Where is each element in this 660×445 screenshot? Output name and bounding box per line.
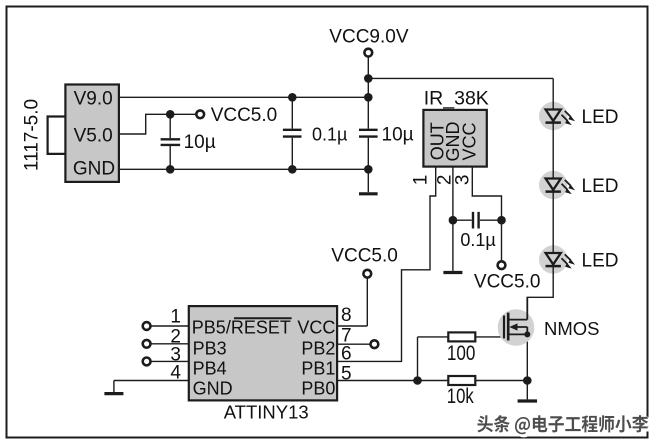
svg-text:5: 5 <box>341 364 352 385</box>
svg-text:VCC9.0V: VCC9.0V <box>329 26 409 47</box>
svg-text:LED: LED <box>582 250 619 271</box>
svg-text:8: 8 <box>341 305 352 326</box>
svg-text:PB0: PB0 <box>301 379 335 399</box>
svg-text:LED: LED <box>582 107 619 128</box>
svg-text:PB2: PB2 <box>301 338 335 358</box>
svg-text:PB3: PB3 <box>193 338 227 358</box>
svg-text:IR_38K: IR_38K <box>424 88 489 110</box>
svg-text:GND: GND <box>193 379 233 399</box>
svg-text:LED: LED <box>582 176 619 197</box>
svg-text:PB4: PB4 <box>193 359 227 379</box>
svg-text:PB5/RESET: PB5/RESET <box>192 318 291 338</box>
svg-text:VCC5.0: VCC5.0 <box>211 105 278 126</box>
svg-text:VCC: VCC <box>459 122 479 160</box>
svg-text:10µ: 10µ <box>382 124 414 145</box>
svg-text:NMOS: NMOS <box>544 318 600 339</box>
svg-text:V9.0: V9.0 <box>74 89 113 110</box>
svg-text:10k: 10k <box>447 385 474 408</box>
svg-text:ATTINY13: ATTINY13 <box>224 402 309 423</box>
svg-text:VCC: VCC <box>297 318 335 338</box>
svg-text:100: 100 <box>447 342 476 365</box>
svg-text:10µ: 10µ <box>184 132 216 153</box>
svg-text:1: 1 <box>411 175 432 186</box>
svg-text:0.1µ: 0.1µ <box>460 230 495 250</box>
svg-text:1117-5.0: 1117-5.0 <box>21 99 42 171</box>
svg-text:3: 3 <box>453 175 474 186</box>
svg-text:VCC5.0: VCC5.0 <box>331 246 398 267</box>
svg-text:1: 1 <box>170 306 181 327</box>
svg-text:V5.0: V5.0 <box>74 125 113 146</box>
svg-text:0.1µ: 0.1µ <box>312 124 347 144</box>
svg-text:VCC5.0: VCC5.0 <box>474 272 541 293</box>
svg-text:PB1: PB1 <box>301 359 335 379</box>
svg-text:4: 4 <box>170 363 181 384</box>
svg-text:6: 6 <box>341 343 352 364</box>
svg-text:GND: GND <box>73 159 115 180</box>
